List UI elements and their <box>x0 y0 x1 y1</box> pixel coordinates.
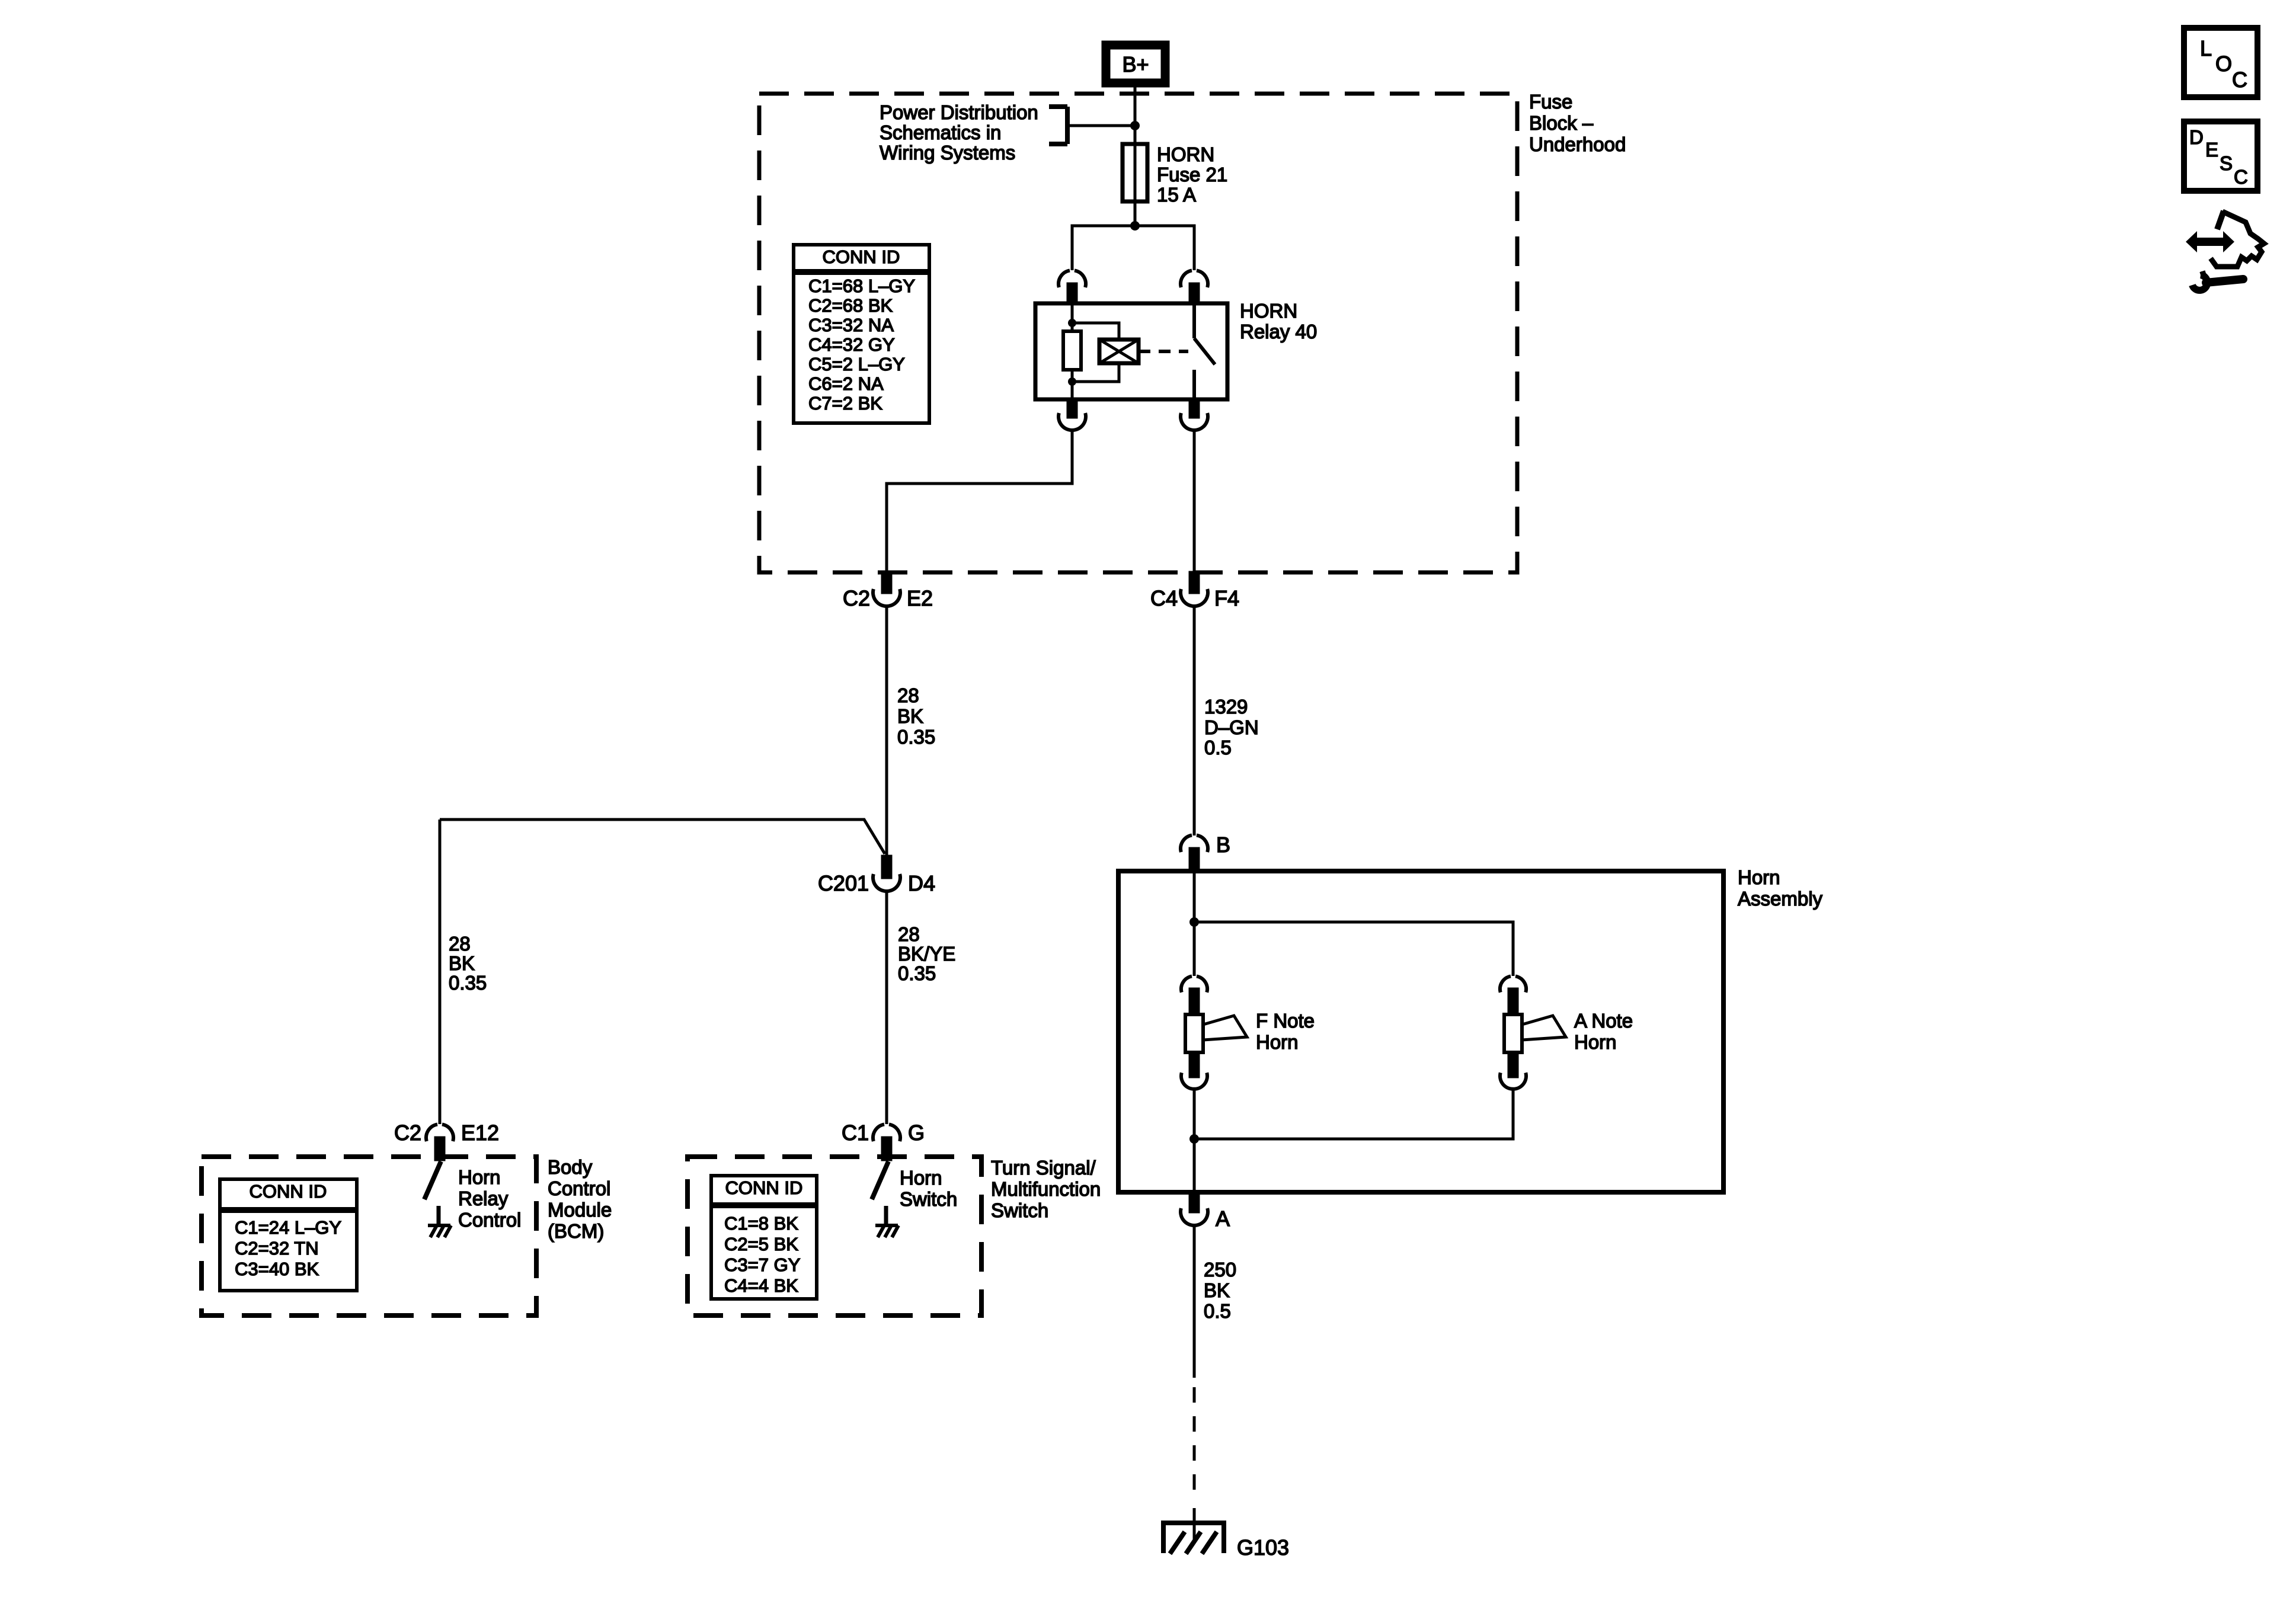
svg-text:BK: BK <box>897 705 923 727</box>
svg-text:C5=2 L–GY: C5=2 L–GY <box>808 354 905 375</box>
fuse block CONN ID table <box>794 245 929 423</box>
svg-text:CONN ID: CONN ID <box>823 247 900 267</box>
svg-text:0.5: 0.5 <box>1204 1300 1231 1322</box>
svg-text:C2=32 TN: C2=32 TN <box>235 1238 319 1259</box>
relay resistor <box>1063 331 1081 370</box>
turn signal CONN ID table <box>711 1176 817 1299</box>
svg-text:C4=4 BK: C4=4 BK <box>724 1275 798 1296</box>
relay internal wire left pin <box>1071 303 1074 399</box>
wire: branch bar to relay pins <box>1072 226 1194 270</box>
svg-text:D–GN: D–GN <box>1204 716 1259 738</box>
svg-text:HORN: HORN <box>1157 143 1214 165</box>
svg-text:28: 28 <box>449 933 471 955</box>
BCM CONN ID table <box>220 1179 357 1291</box>
horn assembly top bus wires <box>1194 871 1513 976</box>
A note horn bottom connector <box>1500 1052 1526 1089</box>
node: relay coil top junction <box>1068 319 1076 327</box>
svg-text:Schematics in: Schematics in <box>880 121 1001 143</box>
connector C2/E12 (BCM) <box>394 1121 499 1160</box>
svg-text:Control: Control <box>458 1209 521 1231</box>
svg-text:0.35: 0.35 <box>898 962 936 984</box>
connector B (horn assembly) <box>1181 833 1230 871</box>
svg-text:Fuse 21: Fuse 21 <box>1157 164 1227 185</box>
svg-text:E12: E12 <box>461 1121 499 1145</box>
svg-text:Switch: Switch <box>900 1188 957 1210</box>
svg-text:F4: F4 <box>1214 586 1239 610</box>
svg-text:BK: BK <box>449 952 475 974</box>
svg-text:Module: Module <box>548 1199 612 1221</box>
svg-text:C2=68 BK: C2=68 BK <box>808 295 893 316</box>
A note horn element <box>1504 1014 1566 1052</box>
node: horn feed junction <box>1189 917 1199 927</box>
label: Power Distribution Schematics in Wiring Systems <box>880 101 1038 164</box>
svg-text:Block –: Block – <box>1529 112 1594 134</box>
svg-text:Horn: Horn <box>1574 1031 1617 1053</box>
wire BCM branch (horizontal) <box>440 820 885 854</box>
svg-text:28: 28 <box>898 923 920 945</box>
relay terminal 30-side female connector (bottom right) <box>1181 399 1208 430</box>
F note horn top connector <box>1181 976 1207 1014</box>
svg-text:Wiring Systems: Wiring Systems <box>880 142 1015 164</box>
svg-text:Turn Signal/: Turn Signal/ <box>991 1157 1096 1179</box>
node: horn ground junction <box>1189 1134 1199 1144</box>
wire C4/F4 down to horn assembly B <box>1193 607 1196 836</box>
svg-text:HORN: HORN <box>1240 300 1297 322</box>
svg-text:BK/YE: BK/YE <box>898 943 955 965</box>
svg-text:F Note: F Note <box>1256 1010 1315 1032</box>
svg-text:Horn: Horn <box>1256 1031 1299 1053</box>
label: Horn Relay Control <box>458 1166 521 1231</box>
svg-text:D4: D4 <box>908 871 935 895</box>
horn assembly box <box>1118 871 1723 1192</box>
svg-text:Relay: Relay <box>458 1188 509 1209</box>
svg-text:C2: C2 <box>843 586 870 610</box>
label: Body Control Module (BCM) <box>548 1156 612 1242</box>
svg-text:G: G <box>908 1121 925 1145</box>
node: power distribution tap junction <box>1130 121 1140 130</box>
svg-text:D: D <box>2189 126 2204 148</box>
label: F Note Horn <box>1256 1010 1315 1053</box>
F note horn element <box>1185 1014 1247 1052</box>
svg-text:250: 250 <box>1204 1259 1236 1281</box>
fuse HORN Fuse 21 15 A <box>1123 144 1147 201</box>
navigation icon: double arrow, body outline, wrench <box>2186 211 2264 290</box>
svg-text:Horn: Horn <box>900 1167 942 1189</box>
BCM dashed box <box>202 1157 536 1315</box>
wire C201 to horn switch C1/G <box>885 892 888 1124</box>
connector C201/D4 <box>818 856 935 895</box>
label: circuit 28 BK 0.35 (BCM) <box>449 933 487 994</box>
svg-text:28: 28 <box>897 684 919 706</box>
relay coil branch wires <box>1072 323 1119 382</box>
label: HORN Relay 40 <box>1240 300 1317 343</box>
svg-text:S: S <box>2220 152 2233 174</box>
svg-text:(BCM): (BCM) <box>548 1220 604 1242</box>
F note horn bottom connector <box>1181 1052 1207 1089</box>
relay terminal 85 female connector (top right) <box>1181 270 1208 303</box>
svg-text:CONN ID: CONN ID <box>725 1177 803 1198</box>
svg-text:C3=7 GY: C3=7 GY <box>724 1254 800 1275</box>
svg-text:C1=24 L–GY: C1=24 L–GY <box>235 1217 341 1238</box>
wire relay control out to fuse block edge (left) <box>887 431 1072 572</box>
horn switch symbol <box>872 1161 898 1237</box>
svg-text:Power Distribution: Power Distribution <box>880 101 1038 123</box>
svg-text:C: C <box>2234 166 2248 188</box>
svg-text:E: E <box>2205 139 2218 161</box>
node: splice below fuse <box>1130 221 1140 231</box>
svg-text:G103: G103 <box>1237 1535 1289 1560</box>
relay HORN Relay 40 box <box>1035 303 1227 399</box>
svg-text:A: A <box>1216 1206 1230 1231</box>
svg-text:C2=5 BK: C2=5 BK <box>724 1234 798 1254</box>
label: circuit 1329 D-GN 0.5 <box>1204 696 1259 758</box>
svg-text:C1=8 BK: C1=8 BK <box>724 1213 798 1234</box>
relay coil (box with X) <box>1099 340 1139 363</box>
svg-text:A Note: A Note <box>1574 1010 1633 1032</box>
svg-text:B: B <box>1216 833 1230 857</box>
svg-text:Horn: Horn <box>458 1166 501 1188</box>
label: A Note Horn <box>1574 1010 1633 1053</box>
relay terminal 87-side female connector (bottom left) <box>1059 399 1086 430</box>
label: circuit 28 BK/YE 0.35 <box>898 923 955 984</box>
battery B+ terminal box <box>1106 45 1165 83</box>
wire A to ground (dashed future splice) <box>1193 1387 1196 1491</box>
fuse block underhood dashed box <box>759 94 1517 572</box>
svg-text:C201: C201 <box>818 871 869 895</box>
svg-text:15 A: 15 A <box>1157 184 1196 206</box>
connector C4/F4 <box>1150 572 1239 610</box>
wire C2/E2 down to C201 <box>885 607 888 856</box>
svg-text:0.5: 0.5 <box>1204 737 1232 758</box>
svg-text:B+: B+ <box>1122 52 1149 76</box>
svg-text:Switch: Switch <box>991 1199 1048 1221</box>
svg-text:C2: C2 <box>394 1121 421 1145</box>
label: Turn Signal/Multifunction Switch <box>991 1157 1101 1221</box>
svg-text:C1: C1 <box>842 1121 869 1145</box>
horn assembly bottom bus wires <box>1194 1090 1513 1192</box>
node: relay coil bottom junction <box>1068 377 1076 386</box>
label: Horn Assembly <box>1738 866 1823 910</box>
label: circuit 250 BK 0.5 <box>1204 1259 1236 1322</box>
svg-text:E2: E2 <box>907 586 933 610</box>
svg-text:CONN ID: CONN ID <box>250 1181 327 1202</box>
svg-text:Multifunction: Multifunction <box>991 1178 1101 1200</box>
label: Horn Switch <box>900 1167 957 1210</box>
connector A (horn assembly) <box>1181 1192 1230 1231</box>
turn signal/multifunction switch dashed box <box>687 1157 981 1315</box>
A note horn top connector <box>1500 976 1526 1014</box>
svg-text:Horn: Horn <box>1738 866 1780 888</box>
svg-text:Body: Body <box>548 1156 593 1178</box>
svg-text:Control: Control <box>548 1177 610 1199</box>
svg-text:C4=32 GY: C4=32 GY <box>808 334 895 355</box>
connector C1/G (horn switch) <box>842 1121 925 1160</box>
relay terminal 86 female connector (top left) <box>1059 270 1086 303</box>
wire A to ground (solid) <box>1193 1226 1196 1378</box>
label: circuit 28 BK 0.35 (upper) <box>897 684 935 748</box>
label: HORN Fuse 21 15 A <box>1157 143 1227 206</box>
wire BCM branch (vertical) <box>439 820 442 1124</box>
svg-text:Relay 40: Relay 40 <box>1240 321 1317 343</box>
connector C2/E2 <box>843 572 933 610</box>
wire relay output to fuse block edge (right) <box>1193 431 1196 572</box>
svg-text:Fuse: Fuse <box>1529 91 1572 113</box>
svg-text:C6=2 NA: C6=2 NA <box>808 373 884 394</box>
svg-text:C1=68 L–GY: C1=68 L–GY <box>808 276 915 296</box>
svg-text:Assembly: Assembly <box>1738 888 1823 910</box>
svg-text:0.35: 0.35 <box>449 972 487 994</box>
svg-text:C3=40 BK: C3=40 BK <box>235 1259 319 1279</box>
svg-text:BK: BK <box>1204 1279 1230 1301</box>
label: Fuse Block - Underhood <box>1529 91 1626 155</box>
relay actuation dashed link <box>1139 350 1188 353</box>
ground G103 symbol <box>1163 1523 1224 1554</box>
svg-text:0.35: 0.35 <box>897 726 935 748</box>
power distribution reference bracket <box>1049 107 1135 144</box>
svg-text:C7=2 BK: C7=2 BK <box>808 393 882 414</box>
svg-text:C: C <box>2232 68 2247 92</box>
svg-text:Underhood: Underhood <box>1529 133 1626 155</box>
svg-text:L: L <box>2200 36 2212 60</box>
wire B+ to fuse <box>1134 87 1137 226</box>
svg-text:1329: 1329 <box>1204 696 1248 718</box>
svg-text:C4: C4 <box>1150 586 1178 610</box>
LOC navigation box <box>2184 28 2257 97</box>
DESC navigation box <box>2184 121 2257 191</box>
svg-text:C3=32 NA: C3=32 NA <box>808 315 894 335</box>
BCM horn relay control switch <box>424 1161 451 1237</box>
relay switch contacts and arm <box>1192 303 1196 399</box>
svg-text:O: O <box>2215 52 2232 76</box>
